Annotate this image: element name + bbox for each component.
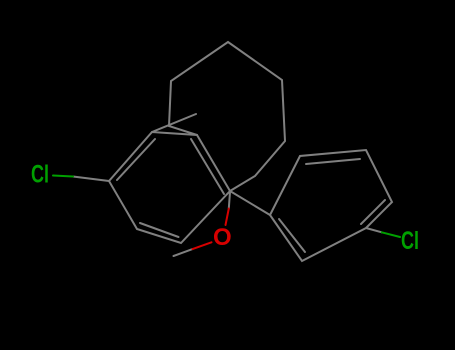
svg-text:O: O <box>213 224 232 251</box>
svg-text:Cl: Cl <box>401 226 419 255</box>
svg-text:Cl: Cl <box>31 160 49 189</box>
